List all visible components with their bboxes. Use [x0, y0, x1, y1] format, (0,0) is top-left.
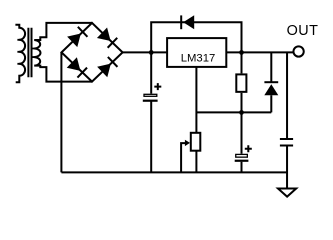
svg-text:OUT: OUT [287, 23, 319, 39]
svg-text:LM317: LM317 [181, 53, 216, 65]
